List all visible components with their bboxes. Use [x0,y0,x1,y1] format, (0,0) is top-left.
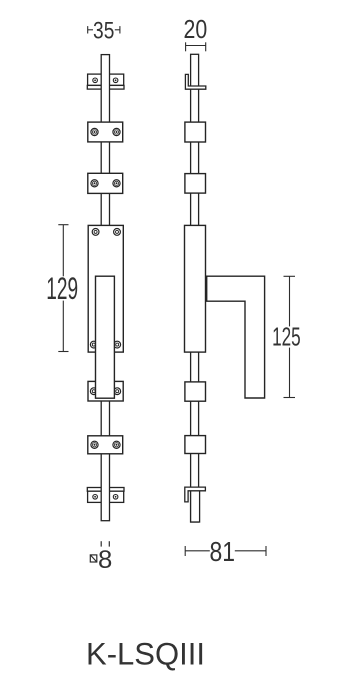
svg-text:125: 125 [272,324,301,352]
dimension 35 right tick [115,26,120,33]
rod guide block 1 (side view) [185,122,206,142]
bottom bracket screw right [113,495,118,500]
backplate (side view) [185,225,206,352]
svg-text:35: 35 [93,19,114,45]
bottom fixing bracket KT (front view, behind rod) [87,488,124,503]
bottom fixing bracket (side view, L-profile) [185,487,206,502]
square-section symbol [90,555,97,562]
svg-text:K-LSQIII: K-LSQIII [86,636,205,671]
lower guide bracket under plate (front view) [88,381,123,401]
bottom bracket screw left [93,495,98,500]
guide block 4 socket screw right [113,441,120,448]
top fixing bracket (side view, L-profile) [185,74,205,89]
backplate screw bottom-left [90,341,97,348]
dimension 129 line [58,225,68,352]
backplate (front view) [88,225,123,352]
rod guide block 2 (front view) [88,173,123,193]
guide block 4 socket screw left [91,441,98,448]
dimension 35 left tick [88,26,93,33]
top bracket screw right [113,78,118,83]
dimension 20 line [186,42,206,51]
svg-text:129: 129 [46,271,78,306]
backplate screw top-left [92,229,99,236]
dimension 8 ticks [101,541,109,546]
svg-text:20: 20 [184,16,208,44]
svg-text:81: 81 [210,536,236,567]
dimension 125 line [284,276,296,397]
top bracket screw left [93,78,98,83]
lower guide bracket screw right [114,388,121,395]
lever handle (side view, L-shape) [207,276,265,398]
rod guide block 4 (front view) [88,436,123,454]
guide block 1 socket screw right [113,128,120,135]
espagnolette rod (side view) [191,54,199,522]
rod lower end (side view, wider) [191,489,200,523]
guide block 2 socket screw left [91,180,98,187]
rod guide block 4 (side view) [185,436,206,454]
guide block 2 socket screw right [113,180,120,187]
guide block 1 socket screw left [91,128,98,135]
rod guide block 1 (front view) [88,122,123,142]
backplate screw top-right [114,229,121,236]
lever handle grip (front view) [96,276,115,398]
dimension 81 line [185,546,266,556]
top fixing bracket KT (front view, behind rod) [87,74,124,89]
rod guide block 3 (side view) [185,382,206,401]
svg-text:8: 8 [98,546,112,574]
rod guide block 2 (side view) [185,174,206,194]
backplate screw bottom-right [114,341,121,348]
espagnolette rod (front view) [101,55,109,521]
lower guide bracket screw left [90,388,97,395]
